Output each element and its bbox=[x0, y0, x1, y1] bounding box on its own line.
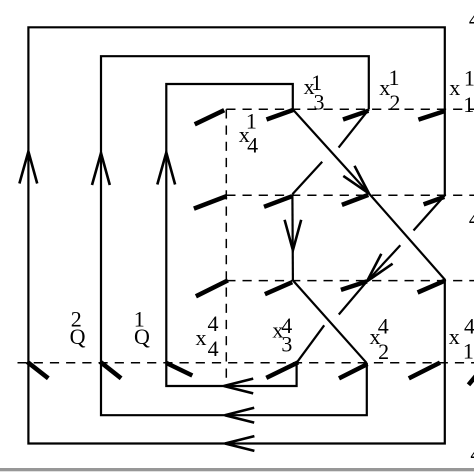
svg-text:4: 4 bbox=[208, 311, 219, 336]
svg-text:4: 4 bbox=[208, 336, 219, 361]
svg-text:1: 1 bbox=[464, 65, 474, 90]
svg-text:3: 3 bbox=[314, 89, 325, 114]
svg-text:4: 4 bbox=[469, 6, 474, 31]
svg-text:4: 4 bbox=[470, 441, 474, 466]
svg-text:1: 1 bbox=[246, 109, 257, 134]
svg-text:1: 1 bbox=[389, 65, 400, 90]
svg-text:Q: Q bbox=[134, 324, 150, 349]
svg-text:4: 4 bbox=[469, 206, 474, 231]
svg-text:2: 2 bbox=[389, 90, 400, 115]
svg-text:Q: Q bbox=[70, 324, 86, 349]
svg-text:x: x bbox=[449, 324, 460, 349]
svg-text:2: 2 bbox=[378, 339, 389, 364]
svg-text:4: 4 bbox=[378, 313, 389, 338]
svg-text:1: 1 bbox=[463, 92, 474, 117]
svg-text:3: 3 bbox=[281, 331, 292, 356]
svg-text:1: 1 bbox=[463, 338, 474, 363]
svg-text:4: 4 bbox=[464, 314, 474, 339]
svg-text:x: x bbox=[196, 325, 207, 350]
svg-text:4: 4 bbox=[247, 132, 258, 157]
svg-text:x: x bbox=[449, 75, 460, 100]
